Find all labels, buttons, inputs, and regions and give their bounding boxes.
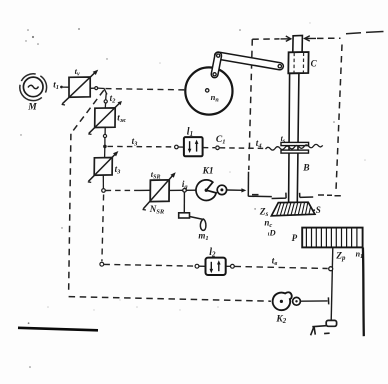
block tv (variable transducer): [62, 66, 99, 105]
dashed wire t3 line to block l1: [108, 145, 175, 148]
dashed box left edge: [249, 39, 253, 170]
node circle on P line: [329, 267, 333, 271]
wire t1 to block tv: [63, 86, 69, 88]
workpiece wheel P: [292, 228, 363, 248]
block t3 (variable transducer): [88, 151, 121, 182]
wire follower to frame with arrow: [227, 189, 243, 191]
long link arm: [218, 56, 280, 67]
wire to junction A: [98, 87, 105, 89]
svg-text:P: P: [292, 233, 298, 243]
np circle (crank disc): [185, 67, 232, 114]
wire junction to block t3: [104, 148, 106, 158]
pivot holes: [217, 54, 220, 57]
node circle t2: [104, 100, 107, 103]
cam K1: [196, 166, 216, 200]
dashed box top edge left part: [252, 38, 279, 40]
dashed box bottom edge pieces: [252, 195, 341, 196]
grinding wheel S (trapezoid): [271, 202, 315, 216]
follower roller K2: [293, 297, 301, 305]
wire into block tzh: [104, 103, 106, 108]
block l2 (damper): [206, 247, 226, 275]
node circle ig: [183, 189, 187, 193]
dashed horizontal wire bottom to cam K2: [69, 297, 271, 302]
wire tSR to ig node: [169, 189, 182, 191]
wire junction A down to t2 node: [104, 89, 107, 95]
node circle l2 left: [195, 264, 199, 268]
liquid element t5 (coolant): [266, 134, 323, 153]
support pedestal bottom right: [311, 320, 337, 335]
svg-text:M: M: [27, 103, 37, 113]
node circle l2 right: [231, 264, 235, 268]
dashed vertical wire down from t3 node: [102, 195, 104, 262]
lever weight m1: [179, 192, 209, 242]
dashed wire l1 to C1: [203, 147, 215, 149]
svg-text:ıD: ıD: [268, 228, 276, 238]
dashed wire C1 to liquid t4: [220, 147, 265, 150]
svg-text:S: S: [316, 205, 321, 215]
node circle t3 out: [102, 189, 106, 193]
wire P wheel down: [331, 248, 333, 321]
arrow onto column left: [281, 38, 291, 40]
scan artifact bar bottom left: [18, 328, 98, 331]
cam K2: [273, 292, 292, 325]
spindle column top part: [293, 36, 303, 53]
node circle after tv: [95, 87, 98, 90]
follower roller K1: [217, 185, 226, 194]
node circle above l2 line: [100, 262, 104, 266]
junction dot: [103, 145, 107, 149]
dashed box top edge right part: [317, 37, 341, 39]
wire tzh down: [104, 128, 106, 135]
node dot t1: [60, 86, 63, 89]
dashed wire to block l2: [104, 264, 195, 266]
short crank link: [215, 56, 219, 75]
arrow onto column right: [305, 36, 310, 41]
dashed top right segment: [346, 32, 384, 34]
block tSR (variable transducer): [143, 169, 176, 216]
wire tv output: [90, 87, 94, 89]
wire K2 follower right: [300, 300, 327, 302]
block C (clamp on column): [288, 52, 317, 73]
dashed wire to block tSR: [106, 189, 140, 191]
wire t3 down: [102, 175, 104, 188]
block tzh (variable transducer): [88, 101, 127, 134]
node circle C1: [216, 146, 220, 150]
wire into l1: [178, 146, 184, 148]
wire ig to cam K1: [186, 189, 196, 191]
wire to junction dot: [104, 138, 106, 145]
heavy right line: [362, 248, 365, 337]
dashed vertical wire left x=70: [69, 134, 71, 295]
spindle column main: [289, 73, 299, 202]
AC source M: [18, 72, 49, 113]
bracket ticks above wheel: [272, 193, 314, 199]
frame bracket: [247, 172, 249, 197]
dashed diagonal wire junction A down-left: [71, 90, 104, 133]
node circle: [103, 134, 106, 137]
scan speckles: [20, 28, 335, 368]
dashed box right edge: [336, 45, 342, 194]
dashed wire junction A to np circle: [106, 89, 205, 91]
block l1 (damper): [184, 127, 203, 157]
svg-text:K1: K1: [202, 166, 214, 176]
dashed wire l2 to node on P line: [235, 266, 328, 268]
svg-text:B: B: [302, 164, 309, 174]
wire into tSR: [140, 189, 151, 191]
svg-text:C: C: [311, 59, 318, 69]
node circle before l1: [175, 145, 179, 149]
